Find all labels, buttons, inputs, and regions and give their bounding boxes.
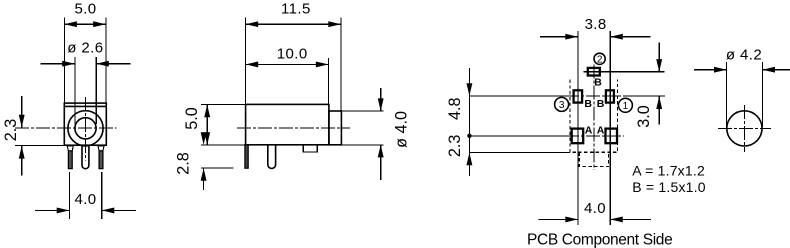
- svg-text:ø 4.0: ø 4.0: [393, 111, 411, 148]
- svg-text:PCB Component Side: PCB Component Side: [527, 232, 672, 248]
- svg-text:4.0: 4.0: [74, 191, 96, 208]
- svg-text:3.0: 3.0: [635, 105, 653, 128]
- svg-text:5.0: 5.0: [74, 1, 96, 18]
- svg-text:2.3: 2.3: [2, 119, 20, 142]
- svg-text:2.8: 2.8: [175, 152, 193, 175]
- svg-text:10.0: 10.0: [277, 46, 308, 63]
- svg-text:A: A: [585, 124, 593, 136]
- svg-text:5.0: 5.0: [183, 107, 201, 130]
- svg-text:ø 4.2: ø 4.2: [726, 47, 762, 64]
- svg-text:A = 1.7x1.2: A = 1.7x1.2: [632, 162, 705, 178]
- svg-text:2: 2: [597, 54, 603, 65]
- svg-text:4.0: 4.0: [584, 200, 606, 217]
- svg-text:11.5: 11.5: [281, 1, 311, 18]
- svg-text:B: B: [594, 77, 602, 89]
- svg-text:1: 1: [623, 101, 629, 112]
- svg-text:B = 1.5x1.0: B = 1.5x1.0: [632, 179, 705, 195]
- svg-text:A: A: [597, 124, 605, 136]
- svg-text:B: B: [597, 98, 605, 110]
- svg-text:2.3: 2.3: [446, 135, 464, 158]
- svg-text:3.8: 3.8: [585, 16, 607, 33]
- svg-text:ø 2.6: ø 2.6: [67, 40, 103, 57]
- svg-text:B: B: [584, 98, 592, 110]
- svg-text:3: 3: [559, 100, 565, 111]
- svg-text:4.8: 4.8: [446, 98, 464, 121]
